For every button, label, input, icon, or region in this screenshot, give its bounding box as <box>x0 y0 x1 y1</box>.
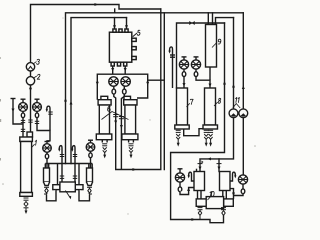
wire H1 top outer line <box>31 5 161 63</box>
gauge circle bottom-left of unit <box>175 169 194 195</box>
arrow on H1 <box>95 3 99 6</box>
column 6 left <box>96 96 112 142</box>
drain chain below vessel 10 left <box>198 208 203 220</box>
wire T down from H2 mid <box>163 13 165 170</box>
wire block bottom stubs to pump header <box>97 66 147 100</box>
pump 11 right <box>239 109 248 118</box>
wire connector H1b-H2 <box>114 9 116 13</box>
wire R2 long vertical right <box>200 18 234 172</box>
label 9 <box>212 43 217 48</box>
label 8 <box>214 102 218 106</box>
wire R1 long vertical <box>171 23 225 223</box>
rotameter right (crossed circle) <box>33 99 50 143</box>
wire feed to block stub A <box>114 18 116 29</box>
pump P-left (crossed circle) <box>109 77 118 86</box>
gauge circle above left small vessel <box>43 142 52 169</box>
label 11 <box>236 97 240 102</box>
wire T down from H2 to col9 <box>207 13 209 25</box>
wire left feed line continues to column 1 <box>30 71 32 132</box>
wire H3 third top line <box>71 18 127 164</box>
drain chevrons below column 6 left <box>102 144 107 156</box>
label 11 with leaders <box>233 104 240 109</box>
vent hook near rotameters <box>47 106 50 130</box>
label 4 <box>65 191 71 200</box>
small column left (bottom-right unit) <box>194 169 205 199</box>
digit labels drawn as paths <box>35 30 239 196</box>
column 7 <box>175 88 189 129</box>
wire arrows on transfer lines to bottom-right unit <box>192 157 221 221</box>
flange ticks on left feed pipes <box>21 120 39 132</box>
wire up-arrows on long left verticals <box>64 98 73 105</box>
vessel 4 (horizontal apparatus) <box>47 182 90 201</box>
nozzle flange ticks <box>48 112 77 178</box>
wire branch frame-right to center verticals <box>148 79 165 81</box>
label 9 <box>218 39 221 44</box>
wire valve line H5 <box>177 23 225 88</box>
label 5 <box>133 33 137 37</box>
wire feed to block stub B <box>126 18 128 29</box>
label 8 <box>218 98 221 103</box>
column 8 <box>203 88 218 129</box>
drain chevrons below column 6 right <box>129 144 134 156</box>
block 5 (apparatus body) <box>109 29 136 66</box>
wire pump frame header <box>97 74 147 100</box>
vent hook right of small column <box>230 172 235 181</box>
column 1 (tall) <box>20 132 33 196</box>
arrow on bottom loop <box>133 168 137 171</box>
valve 3 circle on left feed line <box>26 63 34 71</box>
label 6 <box>108 106 111 111</box>
label 10 <box>208 197 211 200</box>
label 6 with leaders <box>102 112 129 120</box>
label 2 <box>37 74 40 79</box>
vessel 10 (horizontal apparatus) <box>196 197 233 209</box>
wire vertical center-right long (to bottom loop) <box>116 9 161 170</box>
rotameter left (crossed circle) <box>19 99 28 137</box>
vent hook left of small column <box>189 172 194 181</box>
wire inlet pipe far left <box>11 99 24 125</box>
gauge circle above right small vessel <box>86 140 95 168</box>
wire up-arrows on right verticals <box>223 81 245 89</box>
measuring vessel right (narrow) <box>87 164 93 186</box>
label 1 <box>32 144 35 147</box>
wire right column side stub down to vessel 10 <box>230 189 234 199</box>
vent hook left of column 7 <box>170 47 175 88</box>
valve 2 circle on left feed line <box>26 77 34 85</box>
wire H2 second top line <box>66 13 244 164</box>
drain chain below vessel 10 right <box>221 208 226 223</box>
drain diamonds below column 1 <box>24 198 29 212</box>
wire R2 T feed right small column <box>218 159 220 172</box>
wire R3 long vertical far right <box>242 13 244 175</box>
wire col9 vent riser to H4 <box>216 18 234 25</box>
label 7 <box>190 99 193 104</box>
gauge circle bottom-right of unit <box>234 175 248 196</box>
pump 11 left <box>229 109 238 118</box>
scan artifacts <box>0 17 256 214</box>
label 10 <box>210 191 214 196</box>
measuring vessel left (narrow) <box>44 164 50 186</box>
valve V1 on line to column 9 <box>189 21 194 25</box>
wire branch headers feeding vessel 4 nozzles <box>45 146 92 185</box>
label 3 <box>37 59 40 64</box>
label 5 <box>137 30 140 35</box>
drain chains below column 8 <box>204 130 213 144</box>
gauge circle above column 8 <box>191 57 210 88</box>
wire pump stems and drop nozzles <box>112 86 126 169</box>
label 7 <box>187 103 190 107</box>
column 6 right <box>122 96 138 142</box>
drain chain below column 7 <box>176 130 181 144</box>
small column right (bottom-right unit) <box>220 172 231 199</box>
label 1 <box>35 140 36 145</box>
gauge circle above column 7 <box>179 57 188 88</box>
pump P-right (crossed circle) <box>121 77 130 86</box>
wire U pipe between columns 7 and 8 <box>184 129 204 136</box>
column 9 <box>206 25 217 68</box>
flange ticks on drain lines <box>113 115 124 119</box>
